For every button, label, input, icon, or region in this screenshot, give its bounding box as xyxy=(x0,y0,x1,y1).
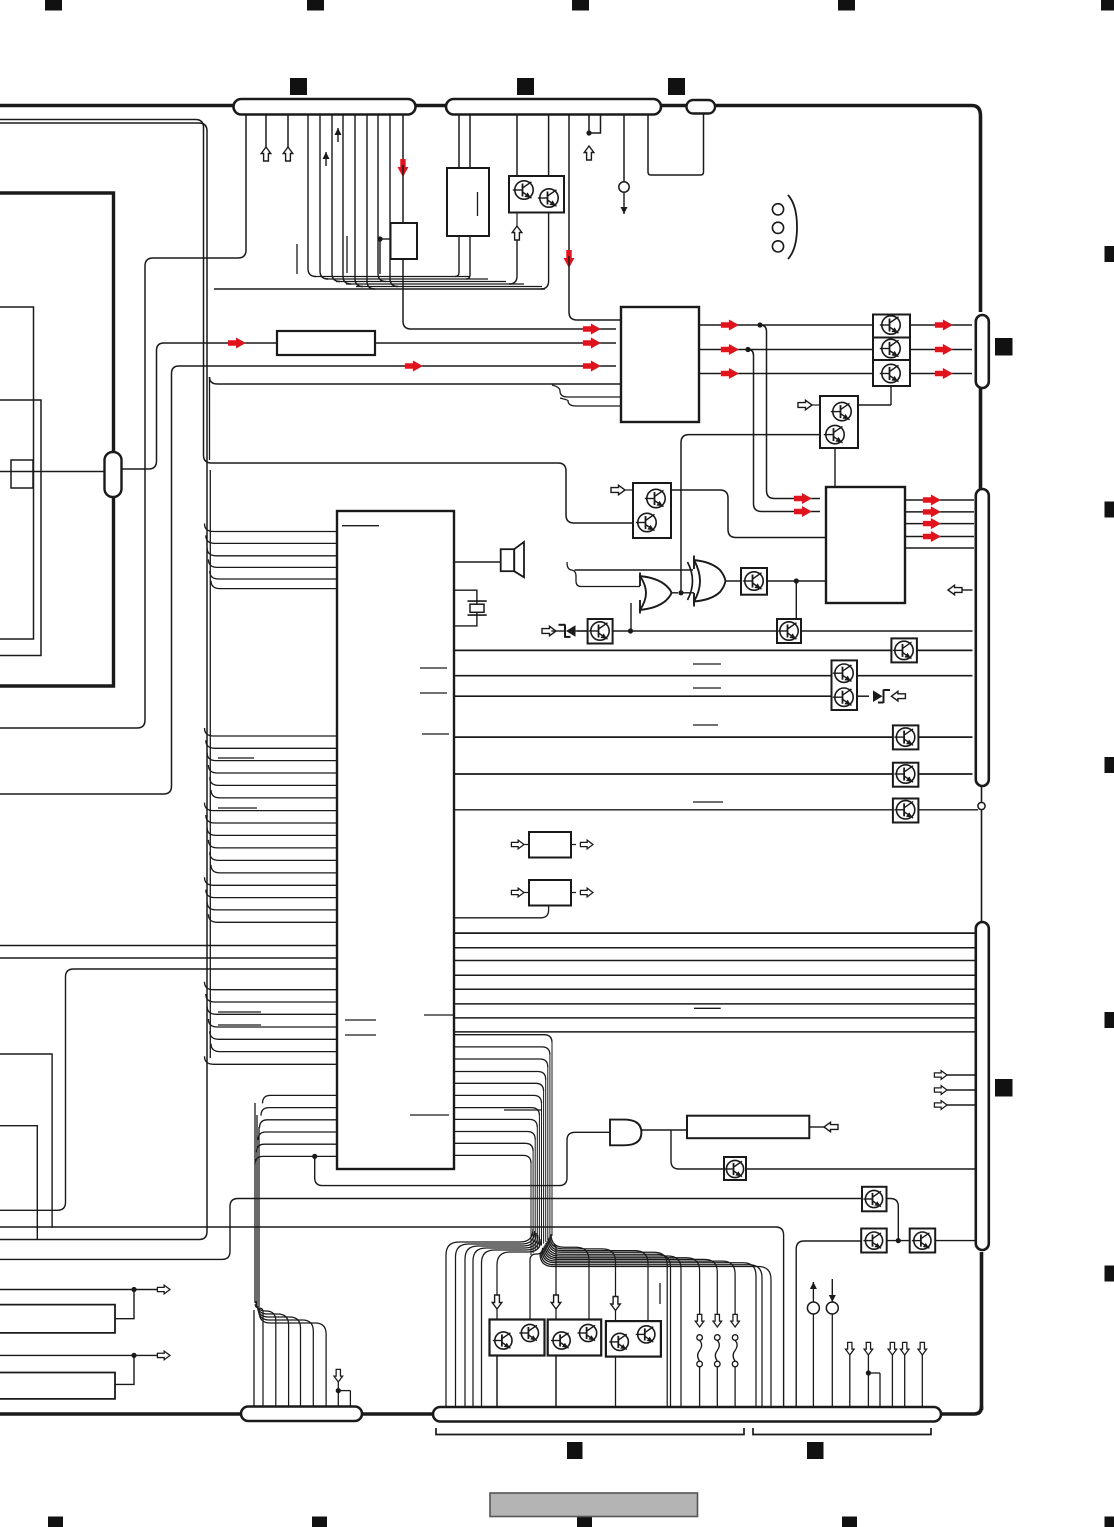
wire left y969 riser xyxy=(0,969,337,1210)
transistor pair Q-top box xyxy=(509,176,564,213)
registration mark bottom 4 xyxy=(842,1517,857,1527)
bus B line 16 xyxy=(208,914,337,922)
bus B line 12 xyxy=(211,865,337,873)
open arrow up on loop xyxy=(584,146,594,160)
wire y366 from left riser xyxy=(0,366,616,794)
wire tboxF to IC2 xyxy=(767,578,826,583)
pill D fan wire 5 xyxy=(258,1309,313,1408)
wire pin12 below box to IC1 xyxy=(403,259,616,329)
wire pill1 bundle pin 10 xyxy=(378,114,386,282)
transistor pair box T1 xyxy=(490,1320,545,1356)
bus A line 6 xyxy=(211,581,337,589)
border frame right edge thin segment with node xyxy=(981,786,983,922)
wire left L-branch a xyxy=(0,1054,52,1228)
bundle E line 8 xyxy=(454,1119,537,1127)
red arrow IC2 out 3 xyxy=(923,518,941,529)
open arrow into pair box QA xyxy=(798,400,820,410)
wire dot branch down to tboxG xyxy=(795,581,797,619)
open arrow up under Q-top box xyxy=(512,226,522,240)
open arrow into IF1 xyxy=(511,840,529,849)
inner mark bottom-right of brace xyxy=(807,1442,824,1459)
bundle E line 2 xyxy=(454,1047,550,1055)
red arrow down on x569 xyxy=(564,250,575,268)
small box IF2 xyxy=(529,880,571,906)
crystal X1 xyxy=(468,601,487,615)
wire v207 long vertical xyxy=(0,123,207,1240)
indicator circle pair xyxy=(807,1279,838,1408)
inner rect A (left) xyxy=(0,307,34,639)
wire line y737 xyxy=(454,736,893,738)
fan-right wire 13 xyxy=(540,1254,771,1409)
switch S1 xyxy=(695,1314,704,1408)
bus R line 3 to pill C xyxy=(454,960,975,962)
registration mark right 5 xyxy=(1105,1266,1114,1282)
wire y1198 path xyxy=(0,1199,862,1260)
connector pill CN-right-B xyxy=(976,489,989,786)
tick label above y810 xyxy=(693,801,723,803)
registration mark right 1 xyxy=(1105,246,1114,262)
open arrow down at pill D xyxy=(334,1369,343,1382)
junction dot bus D line6 xyxy=(312,1154,317,1159)
short vertical tick mark a xyxy=(296,244,298,274)
bus R line 8 to pill C xyxy=(454,1031,975,1033)
connector box L2 xyxy=(0,1373,115,1399)
wire T1 bottom xyxy=(496,1356,498,1408)
zener diode D2 xyxy=(873,690,890,703)
bus B line 10 xyxy=(208,840,337,848)
wire stack out 1 to pill A xyxy=(910,324,972,326)
bus R line 7 to pill C xyxy=(454,1017,975,1019)
bus C line 1 xyxy=(205,982,338,990)
registration mark bottom 1 xyxy=(48,1517,63,1527)
transistor pair box Q-A xyxy=(820,396,858,448)
shield box (left, cut off) xyxy=(0,193,114,686)
bus C line 3 xyxy=(207,1006,337,1014)
red arrow into IC1 line y343 xyxy=(583,338,601,349)
wire stack out 3 to pill A xyxy=(910,373,972,375)
red arrow into IC2 in1 xyxy=(794,493,812,504)
connector pill CN-top-2 xyxy=(446,99,661,115)
connector pill CN-bottom-E xyxy=(433,1407,941,1422)
transistor pair box T3 xyxy=(606,1321,661,1357)
bus C line 7 xyxy=(205,1056,338,1064)
wire jog y397 into IC1 xyxy=(552,385,621,397)
fan-left wire 6 to pill E xyxy=(497,1239,541,1408)
fan-left wire 2 to pill E xyxy=(456,1231,535,1408)
junction dot out2 xyxy=(745,347,750,352)
open arrow up on pin2 xyxy=(261,147,271,161)
tick label above bundle E xyxy=(504,1109,541,1111)
brace bracket 2 xyxy=(753,1428,931,1435)
registration mark top 6 xyxy=(290,78,307,95)
wire line y774 xyxy=(454,773,893,775)
red arrow into IC1 line y366 xyxy=(583,361,601,372)
open arrow out of IF2 xyxy=(571,888,593,897)
transistor box Q-F xyxy=(741,568,767,595)
switch S2 xyxy=(713,1314,722,1408)
fan-right wire 10 xyxy=(543,1248,735,1316)
transistor box Q-J xyxy=(724,1157,746,1180)
stub arrow at pill B y590 xyxy=(948,585,973,595)
red arrow into resistor xyxy=(228,338,246,349)
pill D fan wire 1 xyxy=(255,1304,263,1407)
border frame right edge lower xyxy=(941,1252,982,1414)
registration mark right 6 xyxy=(1105,1517,1114,1527)
transistor box Q-H4 xyxy=(893,763,919,787)
wire pillF to resistor riser xyxy=(122,343,278,469)
fan-left wire 4 to pill E xyxy=(473,1235,538,1408)
registration mark top 5 xyxy=(1101,0,1114,11)
bus B line 8 xyxy=(206,815,337,823)
wire xor output to tboxF xyxy=(725,580,741,582)
interface box under pill2 xyxy=(447,168,489,236)
wire IC1 output 1 to stack xyxy=(699,324,873,326)
tick inside interface box xyxy=(477,192,479,216)
small box IF1 xyxy=(529,832,571,858)
fan-left wire 7 to pill E xyxy=(530,1248,543,1321)
open arrow left delay xyxy=(824,1122,838,1132)
xor gate G2 xyxy=(688,556,726,607)
wire delay out xyxy=(809,1126,824,1128)
wire IC2 output 4 xyxy=(905,536,974,538)
option circles group xyxy=(772,204,783,252)
registration mark top 7 xyxy=(517,78,534,95)
bus rail line 2 xyxy=(326,278,488,280)
bundle E line 1 xyxy=(454,1035,552,1043)
wire B2 to B3 xyxy=(887,1238,910,1243)
wire pill1 pin3 stub xyxy=(287,114,289,148)
registration mark top 2 xyxy=(307,0,324,11)
three stub arrows into pill C xyxy=(934,1071,974,1110)
wire line y737 right xyxy=(918,736,972,738)
wire left y945 xyxy=(0,945,337,947)
red arrow down on pin12 xyxy=(398,159,409,177)
tick pin label IC3 left a xyxy=(345,1019,376,1021)
wire IC2 output 5 xyxy=(905,547,974,549)
wire tboxE to tboxG with junction xyxy=(613,628,777,633)
wire pillF left lead xyxy=(0,471,105,473)
bus A line 1 xyxy=(205,524,338,532)
bus B line 14 xyxy=(206,890,337,898)
wire crystal stubs xyxy=(454,590,477,626)
option circles bracket xyxy=(788,195,797,259)
wire pill2 pin x569 with red arrow xyxy=(568,114,570,250)
red arrow after IC1 out 1 xyxy=(721,320,739,331)
bus A line 3 xyxy=(207,548,337,556)
bus D line 5 xyxy=(257,1144,338,1152)
fan-left wire 3 to pill E xyxy=(465,1233,536,1408)
wire top-left horizontal to v203 xyxy=(0,120,633,524)
wire pill1 bundle pin 5 xyxy=(320,114,328,279)
connector pill F xyxy=(105,452,122,497)
thin up arrow marker 1 xyxy=(323,152,330,166)
pill D fan wire 4 xyxy=(258,1306,301,1408)
open arrow down above T1 xyxy=(492,1295,502,1309)
bus B line 13 xyxy=(205,877,338,885)
tick pin label IC3 right c xyxy=(424,1014,453,1016)
wire pin12 into box xyxy=(402,165,404,223)
bus B line 2 xyxy=(206,740,337,748)
red arrow into IC2 in2 xyxy=(794,506,812,517)
transistor box Q-H5 xyxy=(893,799,919,823)
bus R line 6 to pill C xyxy=(454,1003,975,1005)
wire L2 net xyxy=(0,1351,170,1384)
branch wire from out1 down to IC2 xyxy=(760,325,820,499)
tick label above y737 xyxy=(693,724,718,726)
red arrow into pill A 2 xyxy=(935,344,953,355)
bundle E line 7 xyxy=(454,1108,539,1116)
open arrow into zener1 xyxy=(542,626,556,636)
bus C line 5 xyxy=(210,1031,337,1039)
bus B line 7 xyxy=(205,803,338,811)
wire arrow to box stub xyxy=(516,213,518,228)
pill D fan wire 2 xyxy=(256,1301,276,1407)
wire B3 to pill C xyxy=(935,1240,974,1242)
wire and output xyxy=(641,1129,687,1131)
tick label bus R xyxy=(694,1007,721,1009)
wire pill1 bundle pin 7 xyxy=(343,114,351,284)
connector pill CN-right-A xyxy=(976,315,989,388)
open arrow down pin 3 xyxy=(888,1342,897,1408)
transistor Q-stack box 3 xyxy=(873,360,910,386)
bus D line 3 xyxy=(260,1120,338,1128)
wire AND feed from dot xyxy=(315,1132,610,1185)
transistor box Q-E xyxy=(588,619,613,644)
wire x569 to IC1 xyxy=(569,256,621,320)
wire line y650 left xyxy=(454,649,891,651)
wire IF2 bottom to IC3 xyxy=(454,906,549,918)
wire small-box side tap with junction xyxy=(377,236,390,274)
red arrow IC2 out 2 xyxy=(923,506,941,517)
short vertical tick mark b xyxy=(346,236,348,273)
bus D vertical bundle xyxy=(255,1103,259,1307)
wire line y676 xyxy=(454,675,832,677)
fan-right wire 8 xyxy=(545,1245,700,1316)
red arrow after IC1 out 3 xyxy=(721,368,739,379)
transistor box Q-H3 xyxy=(893,725,919,749)
bundle E line 4 xyxy=(454,1072,546,1080)
bus C line 6 xyxy=(211,1044,337,1052)
junction dot out1 xyxy=(757,322,762,327)
wire pill2 pin x517 xyxy=(516,114,518,176)
wire interface box outputs xyxy=(458,235,460,237)
fan-right wire 9 xyxy=(544,1246,717,1316)
connector box L1 xyxy=(0,1305,115,1333)
wire rail riser x548.6 xyxy=(541,213,549,290)
fan-right wire 12 xyxy=(541,1252,762,1408)
wire y1226 to pill E xyxy=(0,1227,784,1408)
bus R line 2 to pill C xyxy=(454,947,975,949)
wire or1 output to dot xyxy=(671,590,694,595)
bus R line 1 to pill C xyxy=(454,932,975,934)
bus D line 6 xyxy=(255,1156,337,1164)
fan-left wire 1 to pill E xyxy=(446,1229,533,1408)
wire pill1 bundle pin 4 xyxy=(308,114,316,277)
fan-right wire 4 xyxy=(549,1238,648,1325)
wire y435 long feed to pair box xyxy=(681,435,820,593)
inner small box (left) xyxy=(11,460,33,488)
fan-right wire 3 xyxy=(550,1236,616,1323)
registration mark right 4 xyxy=(1105,1012,1114,1028)
bus B line 1 xyxy=(205,728,338,736)
open arrow down pin 1 xyxy=(845,1342,854,1408)
bus A line 2 xyxy=(206,535,337,543)
wire line y810 right xyxy=(918,809,978,811)
transistor box Q-B3 xyxy=(910,1229,936,1253)
fan-right wire 7 xyxy=(546,1243,681,1408)
bus B line 3 xyxy=(207,753,337,761)
wire tbox5 to pill C xyxy=(746,1168,975,1170)
wire pill2 pin x624 to circle xyxy=(623,114,625,182)
wire pill1 bundle pin 8 xyxy=(355,114,363,287)
open arrow out of IF1 xyxy=(571,840,593,849)
wire pill2-to-pill3 jog xyxy=(648,114,704,176)
tick pin label IC3 right b xyxy=(420,692,447,694)
IC U1 (system control) xyxy=(621,307,699,422)
bus B line 4 xyxy=(208,765,337,773)
wire xor input jog vertical xyxy=(567,562,640,587)
bus D line 4 xyxy=(258,1132,337,1140)
bundle E line 5 xyxy=(454,1083,544,1091)
transistor pair box T2 xyxy=(548,1320,602,1356)
wire or1 lower input riser xyxy=(630,603,632,631)
fan-right wire 2 xyxy=(551,1234,589,1321)
short stub right of T3 xyxy=(659,1283,661,1304)
red arrow into pill A 1 xyxy=(935,320,953,331)
wire resistor to IC1 xyxy=(375,342,616,344)
wire zener to tboxE xyxy=(577,630,588,632)
wire and branch to tbox5 xyxy=(671,1130,724,1169)
junction hook on pin2 xyxy=(866,1370,880,1408)
tick pin label IC3 right b2 xyxy=(422,733,449,735)
registration mark top 8 xyxy=(668,78,685,95)
node open circle on right edge xyxy=(978,802,985,809)
transistor Q-stack box 2 xyxy=(873,338,910,361)
connector pill CN-right-C xyxy=(976,922,989,1250)
open arrow into IF2 xyxy=(511,888,529,897)
fan-right wire 6 xyxy=(547,1241,671,1408)
registration mark right 2 xyxy=(1105,502,1114,518)
red arrow IC2 out 1 xyxy=(923,495,941,506)
wire left y958 xyxy=(0,957,337,959)
speaker LS1 xyxy=(501,542,524,577)
IC U3 (microcontroller) xyxy=(337,511,454,1169)
wire line y676 right xyxy=(857,675,973,677)
wire pill1 bundle pin 9 xyxy=(367,114,375,289)
tick label bus C b xyxy=(218,1024,261,1026)
open arrow down pin 4 xyxy=(900,1342,909,1408)
bus A line 4 xyxy=(208,559,337,567)
tick label bus B a xyxy=(218,757,254,759)
wire left L-branch b xyxy=(0,1126,37,1240)
open arrow down above T2 xyxy=(551,1295,561,1309)
registration mark top 3 xyxy=(572,0,589,11)
tick label bus C a xyxy=(218,1011,261,1013)
bus B line 6 xyxy=(211,790,337,798)
pill D fan wire 3 xyxy=(257,1303,289,1408)
wire rail riser x470 xyxy=(466,236,470,279)
fan-left wire 5 to pill E xyxy=(482,1237,540,1408)
wire xor input jog upper xyxy=(566,463,693,570)
wire pill2 pin x470 xyxy=(469,114,471,168)
bus rail y384 to IC1 xyxy=(210,377,622,460)
bus C line 4 xyxy=(208,1019,337,1027)
wire jog y406 into IC1 xyxy=(560,398,621,406)
pill D fan wire 6 xyxy=(259,1312,326,1408)
border frame top edge xyxy=(0,106,981,313)
inner mark near pill C xyxy=(995,1079,1013,1097)
registration mark bottom 2 xyxy=(312,1517,327,1527)
bundle E verticals xyxy=(531,1043,552,1255)
transistor box Q-H1 xyxy=(891,638,917,662)
border frame bottom edge xyxy=(0,1412,433,1416)
bus R line 5 to pill C xyxy=(454,988,975,990)
bus rail line 4 xyxy=(346,283,524,285)
wire line y774 right xyxy=(918,773,972,775)
transistor pair box Q-H2 xyxy=(832,660,858,710)
wire pill1 pin1 to left xyxy=(0,114,246,728)
wire pairbox bottom to IC2 top xyxy=(834,448,836,487)
wire IC2 output 1 xyxy=(905,499,974,501)
bus B line 5 xyxy=(210,777,337,785)
open arrow into pair box QB xyxy=(611,485,633,495)
pill D bundle straight line xyxy=(253,1310,255,1408)
bundle E line 10 xyxy=(454,1143,533,1151)
connector pill CN-top-1 xyxy=(234,99,416,115)
wire pill2 pin x548 xyxy=(548,114,550,176)
wire L1 net xyxy=(0,1285,170,1319)
red arrow into pill A 3 xyxy=(935,368,953,379)
red arrow into IC1 line y329 xyxy=(583,324,601,335)
wire tboxG to pill B xyxy=(801,630,973,632)
wire rail riser x459 xyxy=(455,236,459,277)
label plate (grey) xyxy=(490,1493,698,1517)
red arrow IC2 out 4 xyxy=(923,531,941,542)
and gate G3 xyxy=(610,1120,641,1146)
bundle E line 6 xyxy=(454,1095,542,1103)
wire stack out 2 to pill A xyxy=(910,349,972,351)
wire B2 feed from pill E xyxy=(796,1241,861,1408)
wire IC1 output 3 to stack xyxy=(699,373,873,375)
bundle E line 9 xyxy=(454,1132,535,1140)
or gate G1 xyxy=(639,573,672,614)
delay line box DL1 xyxy=(687,1116,809,1139)
delay box on pin12 xyxy=(391,223,418,259)
bus rail line 3 xyxy=(336,281,506,283)
red arrow mid line y366 xyxy=(405,361,423,372)
wire T2 bottom xyxy=(555,1356,557,1408)
open arrow left at zener2 xyxy=(891,691,905,701)
tick pin label IC3 top xyxy=(342,525,379,527)
wire pill1 pin2 stub xyxy=(265,114,267,148)
wire line y810 xyxy=(454,809,893,811)
wire IC2 output 3 xyxy=(905,523,974,525)
border frame right edge upper xyxy=(979,388,983,489)
inner rect B (left) xyxy=(0,400,41,656)
bus B line 11 xyxy=(210,852,337,860)
zener diode D1 xyxy=(551,624,587,637)
wire line y650 right xyxy=(917,649,973,651)
tick pin label IC3 mid xyxy=(410,1114,449,1116)
bundle E line 11 xyxy=(454,1155,531,1163)
open arrow down pin 5 xyxy=(918,1342,927,1408)
inner mark bottom-left of brace xyxy=(567,1442,583,1459)
transistor Q-stack box 1 xyxy=(873,315,910,338)
registration mark top 1 xyxy=(45,0,62,11)
connector pill CN-top-3 xyxy=(687,100,716,114)
tick label above y696 xyxy=(693,687,721,689)
wire v210 bus feeder vertical xyxy=(209,470,211,1058)
